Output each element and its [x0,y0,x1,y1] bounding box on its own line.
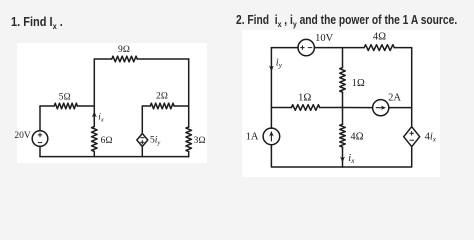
svg-text:3Ω: 3Ω [194,136,206,146]
current arrow i_x (up) [93,114,95,126]
wire: mid rail from left vertical to 1ohm [271,107,342,109]
plus sign of 10V [301,46,305,50]
svg-text:6Ω: 6Ω [101,136,113,146]
svg-text:ix: ix [98,113,104,124]
svg-text:iy: iy [276,57,283,69]
svg-text:1Ω: 1Ω [298,93,311,104]
wire: mid vertical between 1ohm and 4ohm (crosses mid rail) [342,92,344,124]
plus sign inside 4ix diamond [410,132,414,136]
svg-text:5Ω: 5Ω [59,92,71,102]
resistor R 6ohm zigzag on mid vertical [92,127,98,152]
wire: mid vertical below 4ohm to bottom with i_x arrow [342,147,344,167]
wire: left vertical above 20V source [39,106,41,131]
wire: right vertical bottom segment [188,152,190,157]
arrow inside 2A [376,107,383,109]
resistor R 2ohm zigzag [150,103,174,109]
dependent source 5i_y diamond [137,134,148,147]
wire: mid vertical top segment [342,48,344,68]
svg-text:1A: 1A [246,131,259,142]
wire: diamond branch below source [141,147,143,157]
voltage source 20V circle [32,131,48,147]
minus sign of 20V [38,142,42,144]
dependent source 4i_x diamond [404,127,420,147]
plus sign inside diamond [141,141,144,144]
svg-text:ix: ix [348,153,355,165]
wire: top-left corner to 10V source [271,47,298,49]
minus sign inside 4ix diamond [410,139,414,141]
svg-text:9Ω: 9Ω [118,45,130,55]
wire: mid rail right segment to 2A [343,107,373,109]
resistor R 4ohm vertical zigzag [340,124,346,147]
wire: 10V to mid vertical to 4ohm [314,47,411,49]
wire: right vertical top segment [188,59,190,127]
current arrow i_x (down) [340,157,345,163]
current arrow i_y (down) [269,66,274,72]
plus sign of 20V [38,133,42,137]
panel circuit 2 background [242,30,440,177]
wire: left vertical with i_y [270,48,272,129]
minus sign inside diamond [141,137,144,139]
svg-text:4Ω: 4Ω [373,32,386,43]
resistor R 5ohm zigzag [54,103,77,109]
svg-text:2Ω: 2Ω [156,92,168,102]
resistor R 9ohm zigzag [112,56,137,62]
title problem 2 [236,14,457,27]
current source 2A circle (arrow right) [373,100,389,116]
wire: 2ohm rail (diamond branch top to right vertical) [142,105,188,107]
arrow inside 1A [270,134,272,142]
voltage source 10V circle [298,39,314,55]
wire: left rail segment (left vertical to mid vertical) with 5ohm leads [40,105,94,107]
svg-text:20V: 20V [14,131,31,141]
svg-text:2A: 2A [388,93,401,104]
wire: left vertical below 1A to bottom [271,145,342,167]
resistor R 3ohm zigzag on right vertical [186,127,192,152]
svg-text:4ix: 4ix [425,132,437,144]
panel circuit 1 background [17,43,207,163]
wire: 2A to right vertical [389,107,412,109]
resistor R 4ohm top zigzag [364,45,394,51]
wire: right vertical top segment [411,48,413,127]
wire: bottom rail [40,156,189,158]
svg-text:4Ω: 4Ω [350,131,363,142]
svg-text:1Ω: 1Ω [352,78,365,89]
resistor R 1ohm vertical zigzag [340,68,346,93]
wire: left vertical below 20V to bottom rail [39,146,41,156]
wire: diamond branch vertical above source [141,106,143,134]
wire: right vertical below diamond to bottom [343,147,412,167]
wire: mid vertical (top rail down to bottom rail) [93,59,95,157]
minus sign of 10V [308,47,312,49]
resistor R 1ohm horizontal zigzag [291,105,319,111]
wire: top rail (mid vertical to right vertical) with leads of 9ohm [94,58,188,60]
title problem 1 [11,16,63,29]
svg-text:5iy: 5iy [150,136,160,147]
svg-text:10V: 10V [315,33,334,44]
current source 1A circle (arrow up) [263,128,280,145]
